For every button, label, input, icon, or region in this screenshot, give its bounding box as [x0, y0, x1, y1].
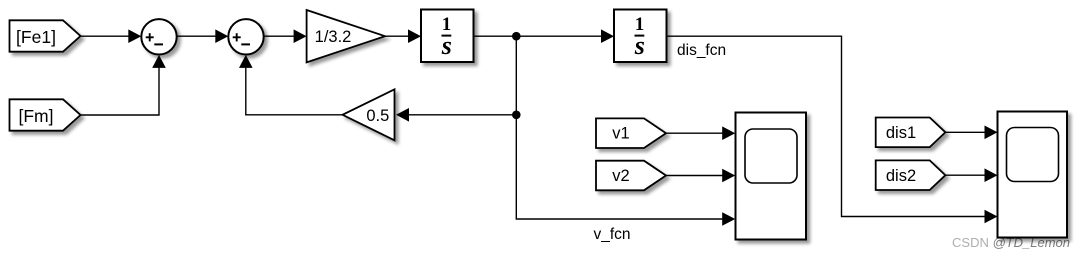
gain block 0.5 [343, 89, 395, 140]
arrowhead into Scope2 input3 [985, 210, 998, 224]
svg-text:[Fe1]: [Fe1] [16, 27, 56, 47]
from tag v1 [596, 118, 666, 148]
svg-text:v1: v1 [612, 125, 629, 143]
arrowhead into Gain 1/3.2 [294, 29, 307, 43]
from tag [Fm] [10, 99, 81, 130]
svg-text:dis1: dis1 [886, 124, 916, 142]
scope Scope2 screen [1007, 128, 1059, 182]
arrowhead into Gain 0.5 (left) [396, 108, 409, 122]
wire branch to Gain 0.5 input [408, 114, 517, 116]
wire Sum1 to Sum2 [177, 35, 217, 37]
svg-text:v2: v2 [612, 167, 629, 185]
from tag dis2 [876, 160, 946, 190]
wire dis1 to Scope2 input1 [945, 131, 986, 133]
arrowhead into Sum1 bottom (up) [152, 55, 166, 68]
from tag [Fe1] [10, 20, 81, 51]
integrator block Integrator2 [614, 10, 667, 63]
arrowhead into Sum2 bottom (up) [239, 55, 253, 68]
junction node B on feedback wire [512, 111, 521, 120]
arrowhead into Scope2 input2 [985, 168, 998, 182]
arrowhead into Integrator1 [408, 29, 421, 43]
svg-text:v_fcn: v_fcn [594, 226, 631, 243]
sum Sum2 minus sign [241, 43, 250, 45]
wire v2 to Scope1 input2 [666, 175, 724, 177]
svg-text:0.5: 0.5 [366, 107, 389, 125]
sum block Sum2 [228, 19, 263, 54]
integrator block Integrator1 [421, 10, 474, 63]
wire Fm to Sum1 bottom [81, 67, 160, 116]
arrowhead into Integrator2 [601, 29, 614, 43]
scope block Scope2 [998, 112, 1068, 238]
junction node A on integrator wire [512, 32, 521, 41]
integrator2 fraction 1/s [634, 14, 645, 60]
sum Sum1 minus sign [154, 43, 163, 45]
scope block Scope1 [736, 113, 807, 240]
gain block 1/3.2 [307, 10, 385, 62]
wire Gain 0.5 output to Sum2 bottom [246, 67, 343, 115]
wire Integrator2 to Scope2 input3 [667, 36, 987, 216]
sum Sum1 plus sign [146, 33, 154, 41]
wire Sum2 to Gain 1/3.2 [264, 35, 296, 37]
from tag dis1 [876, 118, 946, 148]
from tag v2 [596, 161, 666, 191]
wire branch down from node A to v_fcn and Scope1 [516, 36, 724, 219]
sum block Sum1 [141, 19, 176, 54]
scope Scope1 screen [745, 129, 797, 183]
arrowhead into Sum2 [215, 29, 228, 43]
arrowhead into Scope2 input1 [985, 126, 998, 140]
wire v1 to Scope1 input1 [666, 132, 724, 134]
arrowhead into Scope1 input2 [722, 169, 735, 183]
svg-text:dis_fcn: dis_fcn [677, 42, 726, 59]
wire dis2 to Scope2 input2 [945, 174, 986, 176]
arrowhead into Scope1 input3 [722, 212, 735, 226]
arrowhead into Sum1 [128, 29, 141, 43]
wire Fe1 to Sum1 [81, 35, 131, 37]
svg-text:[Fm]: [Fm] [19, 106, 54, 126]
wire Gain 1/3.2 to Integrator1 [385, 35, 410, 37]
wire Integrator1 to Integrator2 [474, 35, 604, 37]
svg-text:1/3.2: 1/3.2 [315, 28, 352, 46]
sum Sum2 plus sign [233, 33, 241, 41]
arrowhead into Scope1 input1 [722, 126, 735, 140]
svg-text:dis2: dis2 [886, 167, 916, 185]
integrator1 fraction 1/s [441, 14, 452, 60]
